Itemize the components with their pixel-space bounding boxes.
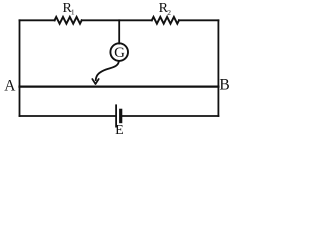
wire right side bbox=[217, 20, 219, 116]
svg-text:A: A bbox=[4, 77, 16, 94]
arrowhead on bridge wire bbox=[92, 79, 98, 84]
wire bottom-right from battery bbox=[123, 115, 219, 117]
wire top-right segment bbox=[179, 19, 218, 21]
wire top-middle segment bbox=[82, 19, 152, 21]
resistor R1 bbox=[55, 17, 82, 24]
battery plate long bbox=[115, 105, 117, 126]
svg-text:1: 1 bbox=[71, 7, 75, 16]
svg-text:G: G bbox=[114, 45, 125, 61]
wire left side bbox=[19, 20, 21, 116]
svg-text:B: B bbox=[219, 76, 229, 93]
wire jockey curve bbox=[96, 61, 119, 80]
svg-text:E: E bbox=[115, 123, 124, 138]
galvanometer G circle bbox=[110, 43, 128, 61]
battery plate short bbox=[119, 110, 122, 121]
wire bottom-left to battery bbox=[20, 115, 115, 117]
wire top-left segment bbox=[20, 19, 55, 21]
wire galvanometer drop bbox=[118, 20, 120, 43]
resistor R2 bbox=[152, 17, 179, 24]
svg-text:2: 2 bbox=[167, 8, 171, 17]
wire bridge A-B bbox=[20, 85, 219, 87]
